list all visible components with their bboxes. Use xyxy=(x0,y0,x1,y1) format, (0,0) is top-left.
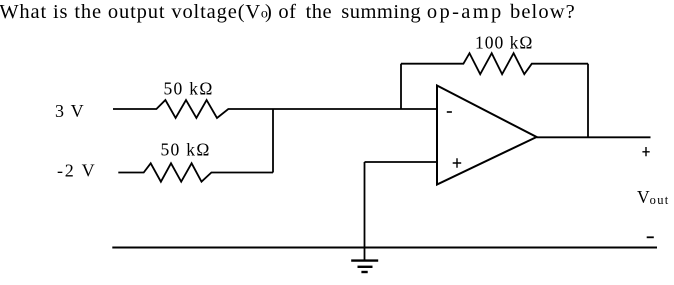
svg-text:Vout: Vout xyxy=(637,187,670,207)
svg-text:3 V: 3 V xyxy=(55,101,85,121)
svg-text:50 kΩ: 50 kΩ xyxy=(161,139,211,159)
svg-text:50 kΩ: 50 kΩ xyxy=(164,78,214,98)
svg-text:What is the output voltage(Vo): What is the output voltage(Vo)of the sum… xyxy=(0,1,576,23)
svg-text:-2 V: -2 V xyxy=(57,160,96,180)
svg-text:100 kΩ: 100 kΩ xyxy=(475,33,533,53)
